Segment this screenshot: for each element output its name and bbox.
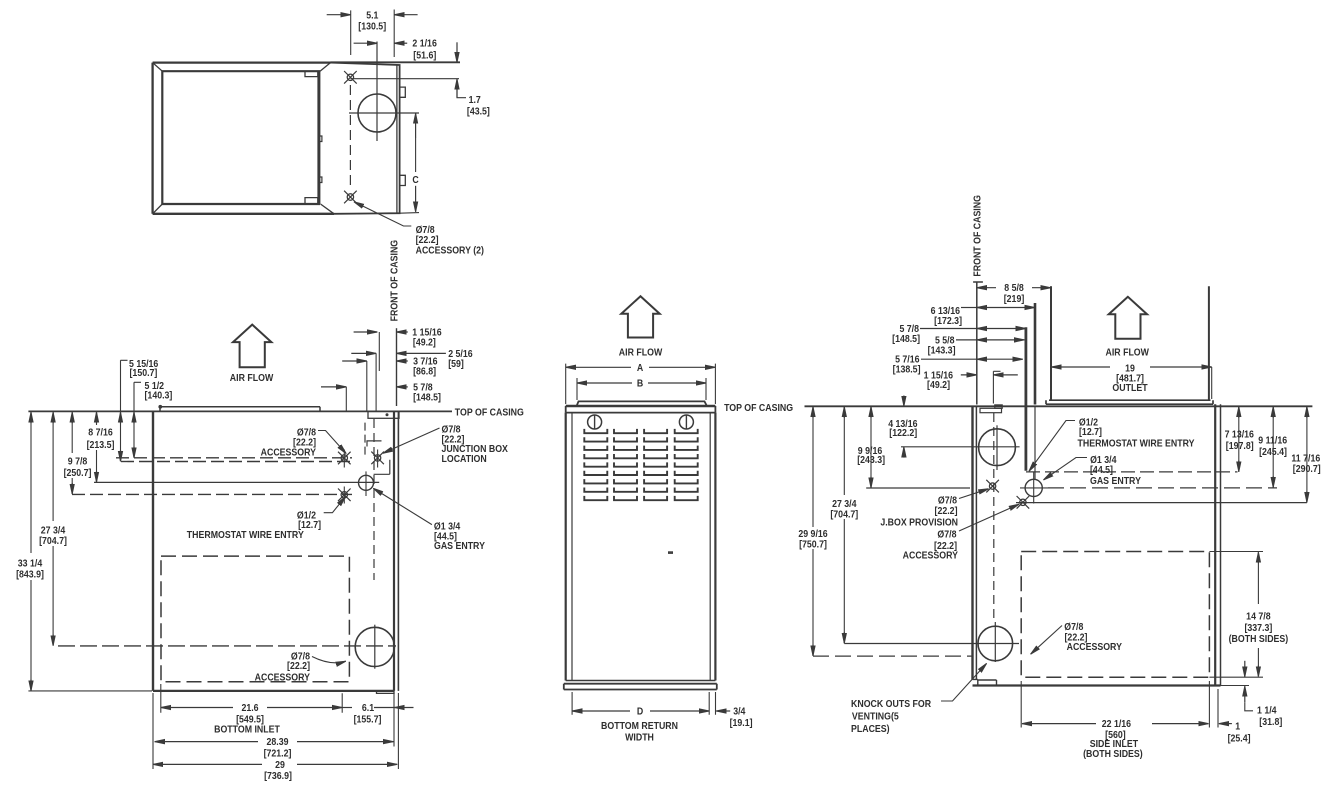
svg-text:7 13/16: 7 13/16 (1225, 428, 1254, 440)
right view: knockout circle centreline (844, 643, 1019, 645)
left view: duct flange line (160, 407, 320, 412)
svg-text:BOTTOM RETURN: BOTTOM RETURN (601, 719, 678, 731)
top view: panel hinge tab lower (400, 175, 406, 185)
left view: jbox provision corner marks (367, 441, 390, 474)
svg-text:[290.7]: [290.7] (1293, 463, 1321, 475)
dim 27 3/4 (left view) (52, 413, 54, 646)
right view: gas entry circle (1025, 479, 1042, 496)
svg-text:ACCESSORY: ACCESSORY (261, 446, 317, 458)
svg-text:[721.2]: [721.2] (264, 747, 292, 759)
svg-text:[704.7]: [704.7] (39, 535, 67, 547)
svg-text:21.6: 21.6 (241, 701, 258, 713)
svg-text:[750.7]: [750.7] (799, 538, 827, 550)
dim 14 7/8 extension lines (1209, 552, 1263, 678)
svg-text:TOP OF CASING: TOP OF CASING (455, 406, 524, 418)
svg-text:[250.7]: [250.7] (64, 466, 92, 478)
top view: gas hole horizontal centreline (349, 112, 419, 114)
dim 5.1 arrows (327, 14, 351, 16)
dim 3/4 (716, 710, 730, 712)
right view: casing top line (805, 405, 1313, 407)
svg-text:5.1: 5.1 (366, 9, 378, 21)
svg-text:[59]: [59] (448, 357, 464, 369)
dim D (572, 710, 630, 712)
svg-text:[143.3]: [143.3] (928, 344, 956, 356)
svg-text:ACCESSORY (2): ACCESSORY (2) (416, 244, 484, 256)
right view: jbox knockout crosshair (986, 480, 999, 493)
dim 27 3/4 (right view) (843, 406, 845, 643)
left view: junction box at top (368, 411, 399, 418)
right view: knockout circle (978, 626, 1013, 661)
left view: hidden vent line lower (373, 419, 375, 580)
svg-text:LOCATION: LOCATION (442, 452, 487, 464)
svg-text:WIDTH: WIDTH (625, 731, 654, 743)
svg-text:ACCESSORY: ACCESSORY (255, 671, 311, 683)
middle view: speck (669, 552, 673, 554)
top view: accessory hole crosshair upper (344, 71, 357, 84)
svg-text:[31.8]: [31.8] (1259, 715, 1282, 727)
svg-text:9 11/16: 9 11/16 (1258, 434, 1287, 446)
svg-text:THERMOSTAT WIRE ENTRY: THERMOSTAT WIRE ENTRY (1078, 437, 1196, 449)
top view: panel centre dashed line (349, 85, 351, 190)
svg-text:KNOCK OUTS FOR: KNOCK OUTS FOR (851, 697, 931, 709)
left view: thermostat dashed line (72, 493, 352, 495)
dim 8 7/16 (96, 413, 98, 482)
dim C line with arrows (415, 114, 417, 138)
middle view: base (566, 680, 716, 682)
svg-text:6.1: 6.1 (362, 701, 374, 713)
dim 8 5/8 (977, 287, 996, 289)
label accessory (2) leader (354, 202, 411, 226)
svg-text:PLACES): PLACES) (851, 723, 890, 735)
svg-text:ACCESSORY: ACCESSORY (903, 549, 959, 561)
dim 7 13/16 (1238, 406, 1240, 472)
left view: air flow arrow (233, 325, 271, 368)
svg-text:1.7: 1.7 (469, 94, 481, 106)
svg-text:[25.4]: [25.4] (1228, 732, 1251, 744)
right view: vent line to gas entry (1034, 406, 1036, 480)
top view: inner clip top (305, 71, 318, 76)
left view: front of casing extension (396, 328, 398, 406)
svg-text:[12.7]: [12.7] (1079, 426, 1102, 438)
svg-text:FRONT OF CASING: FRONT OF CASING (388, 240, 400, 322)
left view: bottom right notch (377, 691, 395, 693)
svg-text:[245.4]: [245.4] (1259, 446, 1287, 458)
top view: panel inner right edge (396, 65, 398, 213)
svg-text:OUTLET: OUTLET (1112, 382, 1147, 394)
middle view: casing top band (566, 405, 716, 408)
dim 33 1/4 (30, 413, 32, 691)
svg-text:3/4: 3/4 (733, 705, 746, 717)
middle view: screw right (679, 415, 693, 429)
svg-text:Ø7/8: Ø7/8 (937, 528, 956, 540)
right view: accessory level line (1016, 502, 1307, 504)
dim 5 15/16 (121, 360, 128, 461)
right view: gas level line left (866, 487, 970, 489)
svg-text:D: D (637, 705, 644, 717)
svg-text:[197.8]: [197.8] (1226, 439, 1254, 451)
right view: junction box at top (980, 408, 1002, 412)
svg-text:AIR FLOW: AIR FLOW (619, 346, 663, 358)
svg-text:8 7/16: 8 7/16 (88, 426, 112, 438)
dim A extension lines (566, 364, 716, 404)
top view: inner clip bottom (305, 198, 318, 204)
left view: accessory crosshair (338, 452, 351, 465)
dim 1 (1219, 723, 1232, 725)
dim 2 1/16 arrows (354, 42, 378, 44)
svg-text:(BOTH SIDES): (BOTH SIDES) (1229, 633, 1289, 645)
svg-text:[49.2]: [49.2] (413, 336, 436, 348)
dim B (577, 382, 632, 384)
top view: control panel outline (331, 63, 400, 214)
left view: lower centre dashed line (58, 645, 396, 647)
left view: thermostat crosshair (338, 489, 351, 502)
svg-text:33 1/4: 33 1/4 (18, 557, 43, 569)
dim 5 1/2 (134, 382, 141, 457)
left view: accessory dashed line upper (116, 457, 352, 459)
dim 29 (153, 763, 262, 765)
dim 22 1/16 side inlet (1022, 723, 1096, 725)
svg-text:AIR FLOW: AIR FLOW (230, 372, 274, 384)
top view: casing door edge (heavy) (317, 71, 320, 204)
top view: top edge extension (331, 61, 461, 63)
dim 28.39 (155, 741, 258, 743)
right view: accessory knockout crosshair (1017, 496, 1030, 509)
top view: latch bump lower (319, 177, 322, 183)
top view: latch bump upper (319, 136, 322, 142)
right view: outlet flange (1046, 400, 1213, 404)
right view: casing front wall (971, 406, 973, 679)
right view: jbox provision circle (979, 429, 1016, 466)
top view: accessory hole crosshair lower (344, 191, 357, 204)
dim 9 11/16 (1272, 406, 1274, 487)
svg-text:ACCESSORY: ACCESSORY (1067, 641, 1123, 653)
left view: gas entry circle (359, 475, 374, 490)
svg-text:B: B (637, 377, 644, 389)
svg-text:[130.5]: [130.5] (358, 20, 386, 32)
svg-text:FRONT OF CASING: FRONT OF CASING (971, 195, 983, 277)
dim 6.1 (342, 707, 352, 709)
left view: jbox knockout crosshair (371, 452, 384, 465)
svg-text:[148.5]: [148.5] (892, 332, 920, 344)
svg-text:GAS ENTRY: GAS ENTRY (1090, 475, 1142, 487)
svg-text:[44.5]: [44.5] (1090, 463, 1113, 475)
right view: air flow arrow (1109, 297, 1147, 339)
svg-text:[172.3]: [172.3] (934, 314, 962, 326)
left view: casing left wall (152, 411, 154, 691)
svg-text:14 7/8: 14 7/8 (1246, 610, 1270, 622)
right view: thermostat level dashed line (1026, 471, 1238, 473)
dim 19 outlet (1052, 366, 1111, 368)
middle view: louver grid (584, 429, 697, 500)
top view: gas hole circle (358, 94, 396, 132)
right view: casing bottom with notch (973, 679, 997, 685)
svg-text:1 1/4: 1 1/4 (1257, 704, 1277, 716)
dim 1 15/16 (left view) (354, 331, 378, 333)
svg-text:[148.5]: [148.5] (413, 391, 441, 403)
right view: vent pipe above casing (1034, 303, 1037, 405)
svg-text:[150.7]: [150.7] (130, 367, 158, 379)
middle view: duct flange cap (577, 401, 707, 406)
left view: casing bottom (153, 690, 394, 692)
svg-text:28.39: 28.39 (267, 736, 289, 748)
right view: bottom extension lines (1021, 681, 1218, 728)
svg-text:A: A (637, 361, 644, 373)
right view: lower dashed line (813, 655, 972, 657)
svg-text:[43.5]: [43.5] (467, 105, 490, 117)
svg-text:[22.2]: [22.2] (287, 659, 310, 671)
svg-text:[122.2]: [122.2] (889, 426, 917, 438)
middle view: screw left (588, 415, 602, 429)
left view: casing right wall inner (393, 411, 395, 691)
svg-text:[736.9]: [736.9] (264, 770, 292, 782)
dim 1 1/4 (1221, 685, 1250, 687)
svg-text:[138.5]: [138.5] (893, 363, 921, 375)
dim 21.6 bottom inlet (161, 707, 233, 709)
right view: outlet duct walls (1050, 286, 1052, 400)
svg-text:[704.7]: [704.7] (830, 508, 858, 520)
left view: bottom extension lines (28, 684, 398, 769)
top view: corner bevels (153, 63, 334, 214)
dim 5.1 extension lines (351, 10, 395, 58)
svg-text:[219]: [219] (1004, 292, 1025, 304)
right view: front of casing plane line (973, 282, 983, 405)
left view: top of casing line (28, 410, 452, 412)
svg-text:[337.3]: [337.3] (1244, 621, 1272, 633)
right view: heavy vent line (1025, 327, 1028, 471)
svg-text:(BOTH SIDES): (BOTH SIDES) (1083, 748, 1143, 760)
svg-text:[19.1]: [19.1] (730, 716, 753, 728)
dim 9 7/8 (71, 413, 73, 494)
svg-text:[213.5]: [213.5] (87, 438, 115, 450)
dim A (566, 366, 631, 368)
svg-text:[22.2]: [22.2] (935, 505, 958, 517)
top view: casing outer outline (153, 63, 334, 214)
dim 2 5/16 (left view) (351, 352, 376, 354)
top view: gas hole vertical centreline (376, 42, 378, 142)
right view: jbox circle centreline (901, 446, 1020, 448)
top view: panel hinge tab upper (400, 87, 406, 97)
middle view: air flow arrow (621, 296, 659, 337)
right view: casing rear wall (1214, 404, 1216, 685)
svg-text:2 1/16: 2 1/16 (412, 37, 436, 49)
svg-text:THERMOSTAT WIRE ENTRY: THERMOSTAT WIRE ENTRY (187, 528, 305, 540)
dim 11 7/16 (1306, 406, 1308, 502)
dim 14 7/8 (1257, 554, 1259, 675)
dim D extension lines (572, 692, 715, 715)
right view: hidden vent vertical (993, 413, 995, 622)
left view: accessory dashed line lower (121, 461, 352, 463)
svg-text:9 7/8: 9 7/8 (68, 455, 88, 467)
left view: hidden vent line upper (364, 423, 366, 457)
dim 1.7 extension lines (350, 78, 459, 80)
dim B extension lines (577, 378, 706, 400)
svg-text:VENTING(5: VENTING(5 (852, 710, 899, 722)
left view: lower accessory circle (355, 627, 394, 666)
top view: casing inner outline (162, 71, 319, 204)
dim 29 9/16 (812, 406, 814, 656)
left view: gas entry centreline (94, 481, 379, 483)
svg-text:[843.9]: [843.9] (16, 568, 44, 580)
dim 3 7/16 (left view) (342, 360, 367, 362)
svg-text:TOP OF CASING: TOP OF CASING (724, 401, 793, 413)
svg-text:1: 1 (1235, 720, 1240, 732)
svg-text:29: 29 (275, 758, 285, 770)
left view: bottom inlet dashed rect (161, 556, 349, 682)
svg-text:[51.6]: [51.6] (413, 49, 436, 61)
svg-text:[155.7]: [155.7] (354, 713, 382, 725)
svg-text:[49.2]: [49.2] (927, 379, 950, 391)
left view: casing right wall outer (397, 411, 399, 691)
svg-text:C: C (412, 173, 419, 185)
right view: side inlet dashed rect (1021, 552, 1209, 678)
svg-text:AIR FLOW: AIR FLOW (1106, 346, 1150, 358)
middle view: casing walls (565, 413, 567, 681)
dim 5 7/8 (left view) (321, 386, 346, 388)
svg-text:J.BOX PROVISION: J.BOX PROVISION (880, 516, 958, 528)
svg-text:BOTTOM INLET: BOTTOM INLET (214, 723, 280, 735)
svg-text:GAS ENTRY: GAS ENTRY (434, 540, 486, 552)
svg-text:[86.8]: [86.8] (413, 365, 436, 377)
dim 1.7 arrows and leader (456, 42, 458, 62)
svg-text:[140.3]: [140.3] (145, 389, 173, 401)
left view: extension lines top right (346, 332, 379, 411)
right view: gas level dashed line right (1048, 487, 1277, 489)
